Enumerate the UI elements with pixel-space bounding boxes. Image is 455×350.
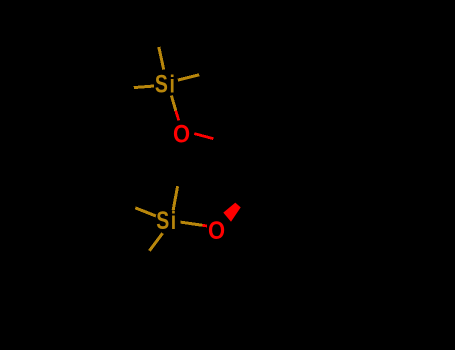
svg-text:Si: Si bbox=[155, 70, 177, 98]
svg-text:O: O bbox=[173, 120, 190, 148]
svg-text:O: O bbox=[208, 217, 225, 245]
svg-text:Si: Si bbox=[156, 206, 178, 234]
